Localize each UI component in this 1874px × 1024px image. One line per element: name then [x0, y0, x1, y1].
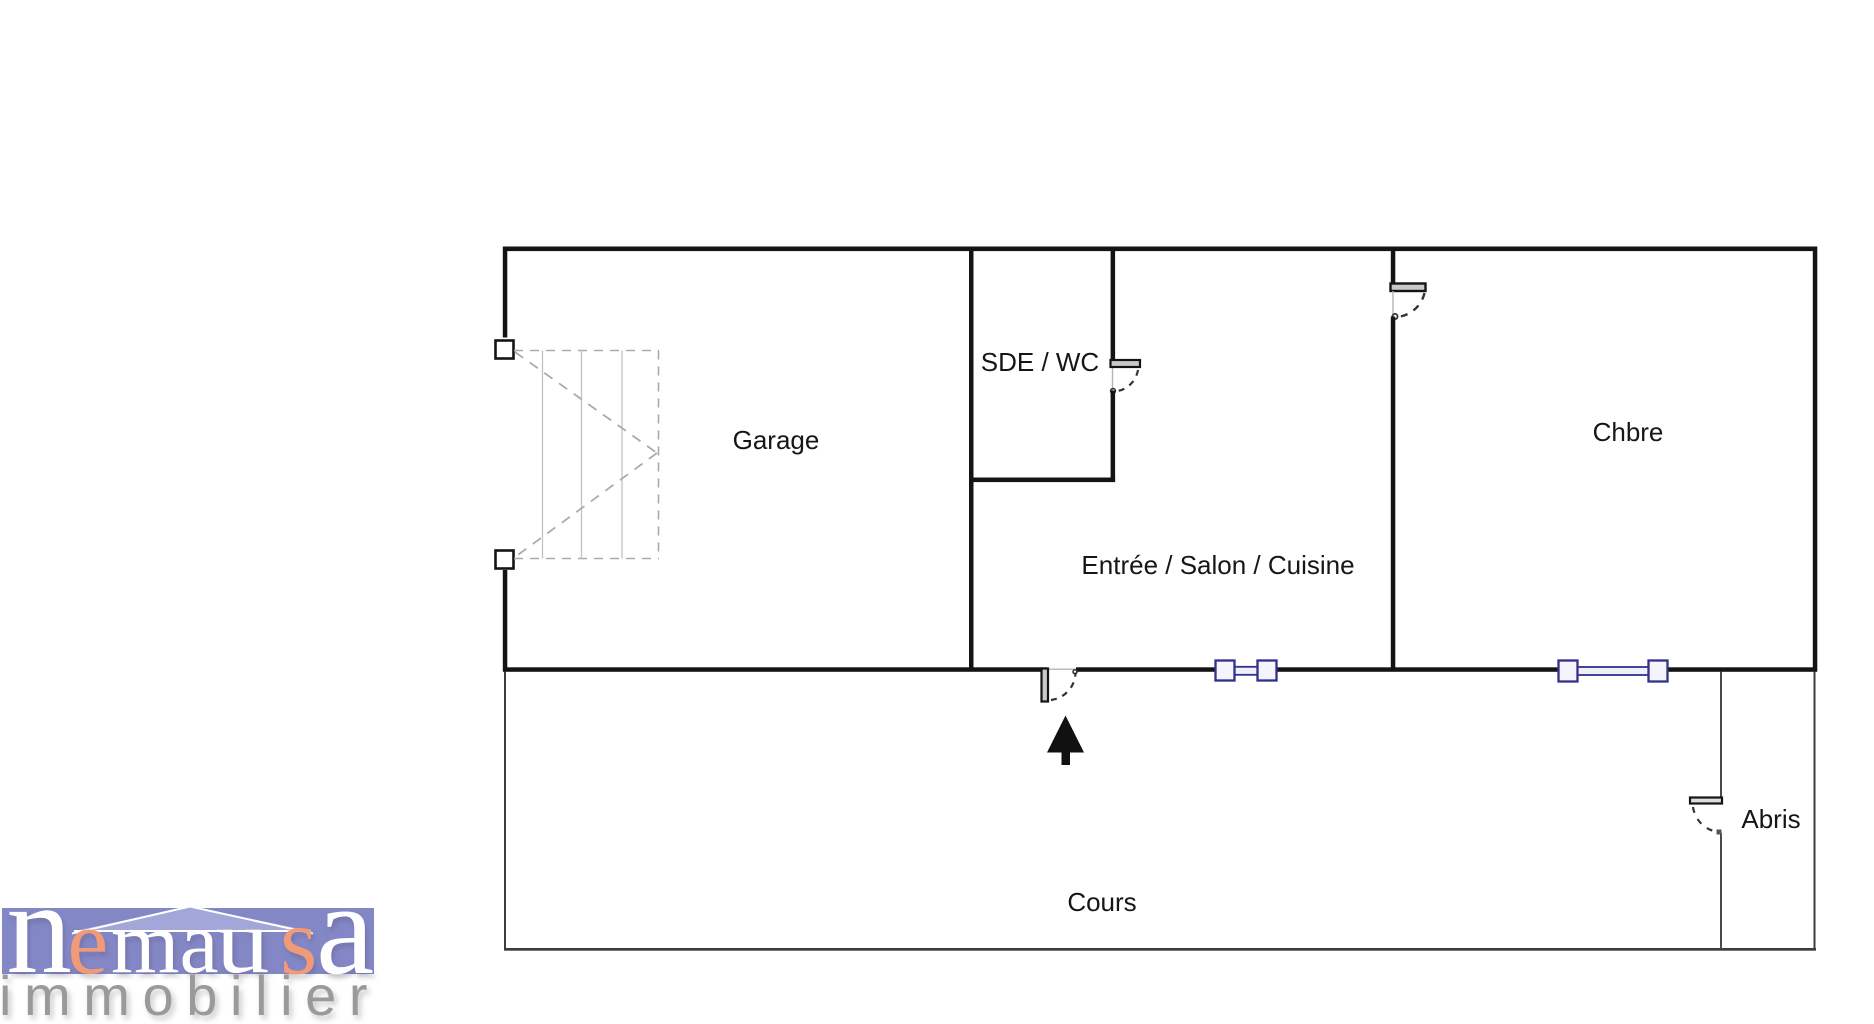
stair jamb square bottom [496, 551, 514, 569]
SDE door swing arc [1115, 370, 1138, 392]
cours right boundary thin line [1814, 672, 1816, 950]
entrance arrow head [1047, 716, 1084, 753]
staircase tread line 3 [621, 351, 623, 559]
bottom wall segment 3 [1277, 667, 1558, 672]
left wall lower segment [503, 570, 508, 672]
SDE door hinge dot [1111, 389, 1116, 394]
cours bottom boundary thin line [504, 948, 1816, 951]
chbre door hinge dot [1392, 314, 1397, 319]
entry door hinge dot [1073, 670, 1077, 674]
window 2 left square [1559, 661, 1578, 682]
logo roof base line [74, 930, 311, 932]
logo letter u [216, 890, 269, 992]
chbre partition upper stub [1391, 247, 1396, 284]
svg-text:Abris: Abris [1741, 804, 1800, 834]
window 2 right square [1649, 661, 1668, 682]
staircase dashed outline top [514, 350, 659, 352]
SDE door leaf [1111, 360, 1141, 367]
window 1 left square [1216, 661, 1235, 681]
svg-text:Garage: Garage [733, 425, 820, 455]
SDE bottom wall [969, 478, 1115, 483]
staircase tread line 2 [581, 351, 583, 559]
bottom wall segment 1 [503, 667, 1047, 672]
svg-text:Chbre: Chbre [1593, 417, 1664, 447]
abris door swing arc [1693, 807, 1719, 832]
entry door opening thin line [1047, 669, 1076, 670]
staircase tread line 1 [542, 351, 544, 559]
wall garage / entree [969, 247, 974, 672]
staircase dashed outline right [658, 351, 660, 559]
SDE right wall upper [1111, 247, 1116, 361]
chbre partition lower [1391, 317, 1396, 668]
abris door leaf [1690, 798, 1722, 804]
chbre door swing arc [1397, 293, 1425, 317]
entry door swing arc [1051, 673, 1076, 701]
svg-text:immobilier: immobilier [0, 964, 380, 1024]
svg-text:Entrée / Salon / Cuisine: Entrée / Salon / Cuisine [1081, 550, 1354, 580]
top wall [503, 247, 1817, 252]
logo roof fill [74, 907, 311, 932]
window 1 connecting double line [1234, 667, 1258, 675]
staircase dashed outline bottom [514, 558, 659, 560]
cours left boundary thin line [504, 672, 506, 950]
abris divider thin line upper [1720, 672, 1722, 804]
SDE right wall lower stub [1111, 391, 1116, 482]
entry door leaf [1042, 669, 1049, 702]
logo roof right slope line [190, 907, 313, 934]
SDE door opening thin line [1112, 367, 1113, 391]
staircase direction dashed chevron lower [515, 453, 657, 557]
staircase direction dashed chevron upper [515, 352, 657, 453]
bottom wall segment 4 [1667, 667, 1817, 672]
window 2 connecting double line [1577, 667, 1649, 675]
window 1 right square [1258, 661, 1277, 681]
logo band [2, 908, 374, 974]
entrance arrow stem [1062, 753, 1071, 766]
stair jamb square top [496, 341, 514, 359]
left wall upper segment [503, 247, 508, 338]
svg-text:Cours: Cours [1067, 887, 1136, 917]
logo roof left slope line [72, 907, 190, 934]
right wall [1813, 247, 1818, 672]
bottom wall segment 2 [1076, 667, 1215, 672]
abris door hinge dot [1717, 830, 1722, 835]
abris divider thin line lower [1720, 833, 1722, 949]
chbre door opening thin line [1392, 291, 1393, 317]
chbre door leaf [1391, 284, 1426, 292]
svg-text:SDE / WC: SDE / WC [981, 347, 1099, 377]
